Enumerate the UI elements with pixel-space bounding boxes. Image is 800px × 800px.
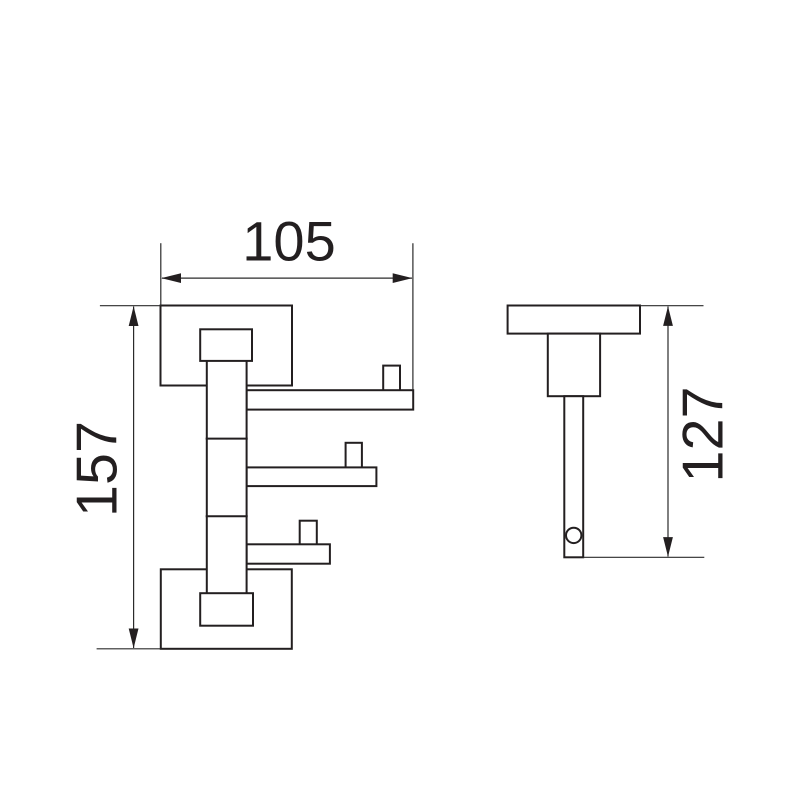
svg-text:105: 105 [242, 210, 335, 273]
dimension 127 extension line top [640, 305, 704, 307]
pivot shaft fill (occludes plate edges) [207, 361, 247, 593]
dimension 105 arrow right [393, 273, 413, 283]
dimension 105 arrow left [161, 273, 181, 283]
side view mount block [548, 334, 600, 397]
shaft joint line 2 [206, 515, 248, 517]
pivot shaft edges [207, 361, 247, 593]
hook arm 2 [247, 467, 377, 486]
dimension 157 line [133, 307, 135, 649]
side view hook hole circle [566, 528, 581, 543]
dimension 105 line [162, 277, 412, 279]
bottom wall plate (front view) [161, 569, 292, 649]
dimension 105 extension line left [160, 243, 162, 305]
top wall plate (front view) [161, 306, 293, 386]
hook arm 3 peg [300, 521, 317, 545]
hook arm 2 peg [346, 443, 362, 468]
shaft joint line 1 [206, 438, 248, 440]
dimension 127 arrow down [663, 537, 673, 557]
hook arm 1 [247, 390, 414, 409]
top pivot square [200, 329, 252, 361]
side view shaft [564, 396, 583, 557]
dimension 157 arrow up [129, 306, 139, 326]
side view ceiling plate [508, 306, 640, 334]
hook arm 1 peg [383, 366, 400, 391]
dimension 157 arrow down [129, 629, 139, 649]
svg-text:127: 127 [672, 387, 736, 483]
dimension 127 extension line bottom [583, 556, 704, 558]
dimension 127 line [667, 307, 669, 557]
svg-text:157: 157 [66, 421, 130, 517]
hook arm 3 [247, 544, 330, 563]
dimension 157 extension line top [100, 305, 161, 307]
dimension 127 arrow up [663, 306, 673, 326]
bottom pivot square [200, 593, 253, 626]
dimension 157 extension line bottom [97, 648, 161, 650]
dimension 105 extension line right [412, 243, 414, 390]
